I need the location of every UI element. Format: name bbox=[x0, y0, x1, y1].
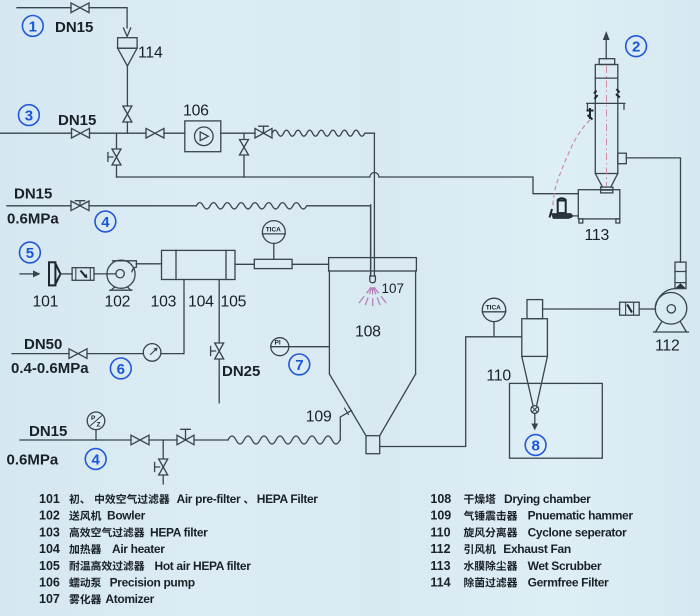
pneumatic hammer mount bbox=[344, 405, 352, 415]
legend english left bbox=[105, 492, 318, 606]
node 7 circled bbox=[289, 354, 310, 375]
svg-text:2: 2 bbox=[632, 39, 640, 56]
wire blower to heater bbox=[136, 263, 161, 265]
water inlet fitting left bbox=[587, 108, 594, 120]
svg-text:DN15: DN15 bbox=[29, 423, 67, 440]
blower 102 bbox=[107, 260, 136, 290]
hot air duct to chamber bbox=[235, 263, 329, 265]
discharge arrow bbox=[531, 413, 538, 430]
svg-text:105: 105 bbox=[221, 294, 247, 311]
svg-text:3: 3 bbox=[25, 108, 33, 125]
branch drain valve below bbox=[155, 440, 168, 484]
legend numbers right bbox=[430, 492, 451, 590]
svg-text:Atomizer: Atomizer bbox=[105, 592, 154, 606]
svg-text:Air pre-filter: Air pre-filter bbox=[177, 492, 241, 506]
scrubber top cap bbox=[599, 59, 615, 65]
svg-text:104: 104 bbox=[188, 294, 214, 311]
svg-text:Cyclone seperator: Cyclone seperator bbox=[528, 525, 627, 539]
node 4 circled bottom bbox=[85, 449, 106, 470]
wire filter to valve bbox=[126, 66, 128, 106]
svg-text:109: 109 bbox=[306, 408, 332, 425]
svg-text:TICA: TICA bbox=[266, 227, 281, 234]
legend english right bbox=[503, 492, 633, 590]
chamber outlet square bbox=[366, 436, 380, 454]
svg-text:Air heater: Air heater bbox=[112, 542, 165, 556]
flexible hose row4 wavy bbox=[196, 203, 370, 276]
duct sensor box bbox=[620, 302, 640, 315]
label DN15 line3 bbox=[58, 112, 96, 129]
svg-text:1: 1 bbox=[29, 18, 37, 35]
CJKSTART bbox=[69, 494, 517, 605]
svg-text:114: 114 bbox=[430, 576, 450, 590]
svg-text:101: 101 bbox=[33, 294, 59, 311]
valve line3 C with stem bbox=[255, 126, 272, 138]
wire cyclone to fan bbox=[543, 308, 656, 310]
label 110 bbox=[486, 368, 511, 385]
svg-text:7: 7 bbox=[295, 357, 303, 374]
pressure gauge on DN50 bbox=[143, 344, 161, 362]
svg-text:102: 102 bbox=[105, 294, 131, 311]
air intake 101 bbox=[49, 262, 72, 285]
svg-text:Hot air HEPA filter: Hot air HEPA filter bbox=[155, 559, 252, 573]
svg-text:106: 106 bbox=[39, 576, 60, 590]
cyclone vortex finder bbox=[527, 300, 543, 319]
svg-text:113: 113 bbox=[585, 227, 610, 244]
svg-text:106: 106 bbox=[183, 103, 209, 120]
branch valve down at x244 bbox=[240, 133, 249, 177]
label 112 bbox=[655, 338, 680, 355]
svg-text:P: P bbox=[91, 415, 96, 422]
wire chamber to cyclone bbox=[380, 337, 522, 447]
support bracket bbox=[587, 103, 625, 109]
cyclone cone bbox=[522, 356, 548, 405]
fan outlet pipe with check bbox=[675, 262, 686, 289]
node 8 circled bbox=[525, 435, 546, 456]
svg-text:TICA: TICA bbox=[486, 304, 501, 311]
instrument TICA 2 bbox=[482, 298, 505, 337]
clamp left bbox=[594, 91, 598, 100]
scrubber side outlet bbox=[618, 153, 627, 164]
heater assembly 103 104 105 bbox=[162, 250, 236, 279]
legend numbers left bbox=[39, 492, 60, 606]
svg-text:104: 104 bbox=[39, 542, 60, 556]
label DN15 bottom bbox=[29, 423, 67, 440]
scrubber tank 113 bbox=[578, 190, 620, 223]
wire DN50 bbox=[12, 280, 184, 354]
label 109 bbox=[306, 408, 332, 425]
wire filter to blower bbox=[94, 273, 116, 275]
svg-text:101: 101 bbox=[39, 492, 60, 506]
svg-text:DN50: DN50 bbox=[24, 336, 62, 353]
svg-text:110: 110 bbox=[430, 525, 450, 539]
svg-text:PI: PI bbox=[275, 340, 281, 347]
chamber cone bbox=[329, 374, 415, 436]
rotary valve bbox=[531, 406, 539, 414]
valve DN50 bbox=[69, 349, 87, 359]
svg-text:Precision pump: Precision pump bbox=[110, 576, 195, 590]
flexible hose line3 wavy bbox=[272, 130, 374, 136]
svg-text:0.6MPa: 0.6MPa bbox=[7, 210, 59, 227]
svg-text:112: 112 bbox=[655, 338, 680, 355]
svg-text:108: 108 bbox=[355, 324, 381, 341]
arrow into filter 114 bbox=[124, 28, 131, 37]
DN25 drain with valve bbox=[211, 280, 224, 403]
svg-text:Pnuematic hammer: Pnuematic hammer bbox=[528, 509, 634, 523]
svg-text:108: 108 bbox=[430, 492, 451, 506]
valve line3 B bbox=[146, 128, 164, 138]
label 107 bbox=[382, 281, 405, 296]
svg-text:113: 113 bbox=[430, 559, 450, 573]
svg-text:6: 6 bbox=[117, 361, 125, 378]
svg-text:Z: Z bbox=[97, 422, 101, 429]
pink water hose curve bbox=[553, 120, 590, 207]
peristaltic pump 106 box bbox=[185, 121, 221, 152]
circulation pump bbox=[550, 198, 579, 219]
svg-text:DN15: DN15 bbox=[14, 186, 52, 203]
svg-text:Bowler: Bowler bbox=[107, 509, 146, 523]
valve line3 A bbox=[72, 128, 90, 138]
clamp right bbox=[616, 89, 620, 98]
valve bottom A bbox=[131, 435, 149, 445]
svg-text:Germfree Filter: Germfree Filter bbox=[528, 576, 609, 590]
gauge PZ bbox=[87, 412, 105, 440]
atomizer spray pink bbox=[359, 287, 386, 306]
cyclone body bbox=[522, 319, 548, 357]
exhaust fan 112 bbox=[654, 289, 689, 332]
labels 101 102 103 104 105 bbox=[33, 294, 59, 311]
label DN50 bbox=[24, 336, 62, 353]
svg-text:HEPA Filter: HEPA Filter bbox=[257, 492, 319, 506]
svg-text:Wet Scrubber: Wet Scrubber bbox=[528, 559, 602, 573]
node 2 circled bbox=[626, 36, 647, 57]
wire bottom row bbox=[20, 439, 228, 441]
scrubber body bbox=[595, 65, 618, 174]
svg-text:109: 109 bbox=[430, 509, 451, 523]
feed pipe down to atomizer (right line) bbox=[373, 133, 375, 276]
label 113 bbox=[585, 227, 610, 244]
node 5 circled bbox=[20, 242, 41, 263]
valve row4 with stem bbox=[71, 201, 89, 211]
valve bottom B with stem bbox=[177, 429, 194, 445]
svg-text:Exhaust Fan: Exhaust Fan bbox=[503, 542, 571, 556]
svg-text:103: 103 bbox=[39, 525, 60, 539]
label DN25 bbox=[222, 363, 260, 380]
svg-text:4: 4 bbox=[101, 214, 110, 231]
wire valve to line3 bbox=[126, 122, 128, 133]
scrubber outlet flange bbox=[601, 187, 613, 193]
label 114 bbox=[138, 44, 163, 61]
chamber body bbox=[329, 271, 415, 374]
svg-text:5: 5 bbox=[26, 245, 34, 262]
svg-text:103: 103 bbox=[151, 294, 177, 311]
node 4 circled top bbox=[95, 211, 116, 232]
label DN15 line1 bbox=[55, 19, 93, 36]
label DN15 row4 bbox=[14, 186, 52, 203]
wire fan to scrubber bbox=[626, 158, 680, 262]
svg-text:105: 105 bbox=[39, 559, 60, 573]
valve vertical below 114 bbox=[123, 106, 132, 122]
feed pipe left line inside bbox=[370, 205, 372, 276]
wire line1 bbox=[17, 8, 127, 28]
germfree filter 114 bbox=[118, 38, 138, 66]
svg-text:Drying chamber: Drying chamber bbox=[504, 492, 591, 506]
label 0.6MPa row4 bbox=[7, 210, 59, 227]
label 108 bbox=[355, 324, 381, 341]
svg-text:DN15: DN15 bbox=[55, 19, 93, 36]
svg-text:102: 102 bbox=[39, 509, 60, 523]
chamber cap bbox=[329, 258, 417, 271]
svg-text:114: 114 bbox=[138, 44, 163, 61]
svg-text:110: 110 bbox=[486, 368, 511, 385]
scrubber cone bbox=[595, 174, 618, 188]
pre-filter box bbox=[72, 268, 94, 281]
scrubber centerline pink bbox=[606, 66, 608, 186]
svg-text:107: 107 bbox=[382, 281, 405, 296]
flexible hose 109 wavy bbox=[228, 411, 351, 445]
collection box bbox=[510, 383, 603, 458]
label 0.6MPa bottom bbox=[7, 452, 59, 469]
svg-text:0.4-0.6MPa: 0.4-0.6MPa bbox=[11, 360, 89, 377]
svg-text:4: 4 bbox=[92, 451, 101, 468]
node 3 circled bbox=[19, 105, 40, 126]
wire row4 bbox=[7, 205, 196, 207]
valve on line 1 bbox=[71, 3, 89, 13]
svg-text:0.6MPa: 0.6MPa bbox=[7, 452, 59, 469]
svg-text:HEPA filter: HEPA filter bbox=[150, 525, 208, 539]
atomizer nozzle 107 bbox=[370, 276, 376, 283]
svg-text:8: 8 bbox=[532, 437, 540, 454]
svg-text:DN15: DN15 bbox=[58, 112, 96, 129]
air inlet arrow bbox=[20, 270, 41, 277]
wire water line y177 with hop over feed pipe bbox=[117, 173, 579, 194]
exhaust arrow up bbox=[603, 31, 610, 59]
node 6 circled bbox=[110, 358, 131, 379]
instrument PI with line to chamber bbox=[271, 338, 329, 356]
wire line3 bbox=[0, 132, 272, 134]
inline temp sensor flange bbox=[254, 259, 292, 268]
svg-text:107: 107 bbox=[39, 592, 60, 606]
node 1 circled bbox=[22, 16, 43, 37]
label 0.4-0.6MPa bbox=[11, 360, 89, 377]
branch from line3 at x116.5 with valve bbox=[108, 133, 121, 177]
svg-text:112: 112 bbox=[430, 542, 450, 556]
svg-text:DN25: DN25 bbox=[222, 363, 260, 380]
instrument TICA 1 bbox=[262, 221, 285, 260]
label 106 bbox=[183, 103, 209, 120]
